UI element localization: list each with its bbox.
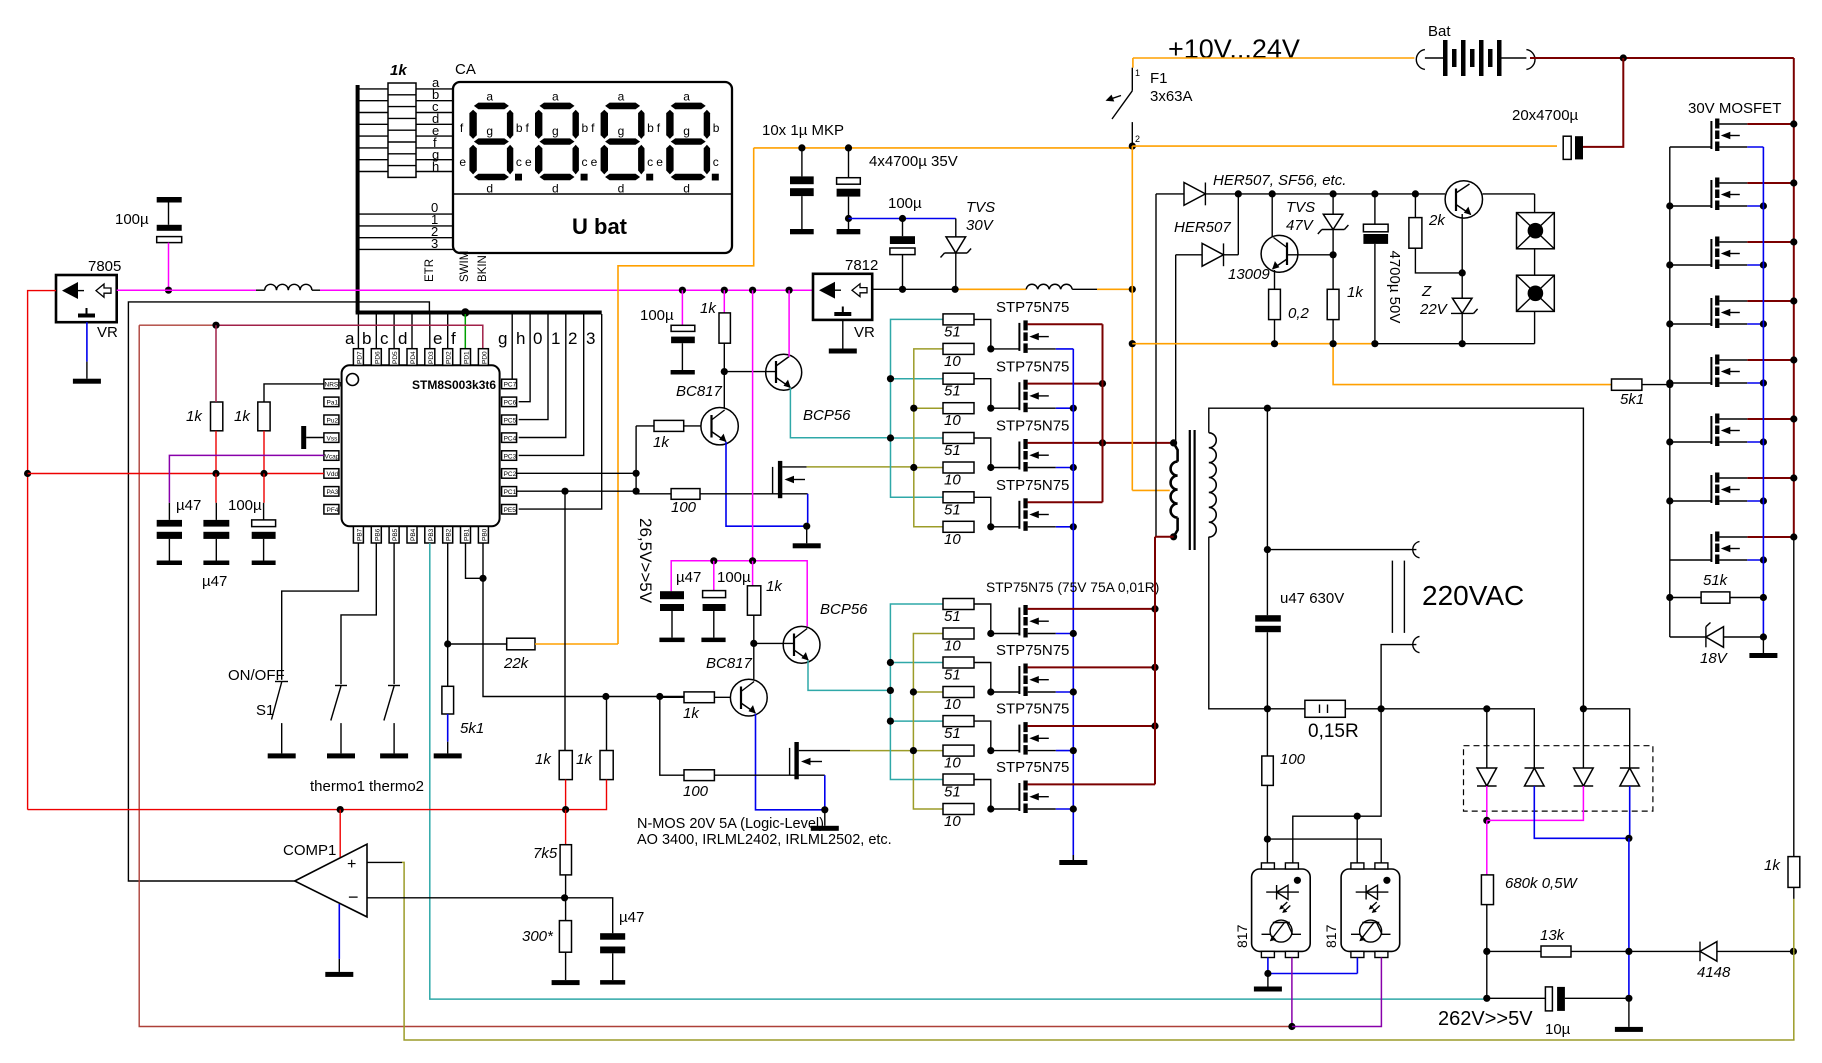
cap C12 20x4700u	[1563, 58, 1623, 159]
node teal L2	[887, 659, 894, 666]
transistor M1 STP75N75	[991, 320, 1056, 353]
wire comp plus input	[367, 861, 402, 863]
svg-text:PD4: PD4	[410, 351, 417, 364]
cap C10 4x4700u 35V	[837, 148, 861, 234]
svg-text:PC4: PC4	[504, 435, 517, 442]
ground S1	[268, 753, 296, 758]
wire comp gnd blue	[338, 904, 340, 959]
node Q8 base zener	[1459, 269, 1466, 276]
wire clamp rail after Q7	[1483, 193, 1535, 195]
svg-text:20x4700µ: 20x4700µ	[1512, 107, 1579, 124]
wire PB6 to thermo1	[341, 543, 376, 684]
wire R6 bottom red	[566, 780, 607, 810]
wire 7812 out rail	[872, 288, 955, 290]
wire 262V node drop	[1486, 951, 1488, 998]
teal branch L2	[890, 662, 943, 664]
node M13 drain	[1790, 356, 1797, 363]
resistor R15 5k1	[1612, 379, 1642, 390]
wire 680k to 13k node	[1486, 905, 1488, 952]
ground 30V bank	[1749, 653, 1777, 658]
node olive L3	[910, 747, 917, 754]
wire Q3 source blue	[807, 494, 809, 526]
svg-text:220VAC: 220VAC	[1422, 580, 1524, 611]
resistor R9 1k upper	[719, 290, 730, 371]
ground lower driver	[811, 826, 839, 831]
wire opto1 emitter blue	[1268, 958, 1358, 974]
svg-text:300*: 300*	[522, 928, 554, 945]
wire source bus gnd stub	[1762, 637, 1764, 653]
wire M9 source blue	[1747, 146, 1763, 148]
wire PB0 down	[483, 543, 606, 697]
transistor M11 30V	[1670, 237, 1748, 270]
cap C2 u47	[157, 503, 182, 565]
node shunt left	[1264, 705, 1271, 712]
wire clamp bottom rail black	[1375, 343, 1535, 345]
svg-text:100µ: 100µ	[640, 307, 674, 324]
cap C15 u47 630V	[1255, 615, 1281, 709]
svg-text:51: 51	[944, 667, 961, 684]
node teal row2	[887, 375, 894, 382]
node lower rail 100u	[710, 557, 717, 564]
svg-text:51: 51	[944, 323, 961, 340]
wire orange 26.5V vertical	[618, 148, 754, 644]
wire M15 source blue	[1747, 500, 1763, 502]
resistor R10 1k base upper	[654, 420, 684, 431]
resistor R18 1k clamp	[1327, 289, 1339, 319]
svg-text:PD5: PD5	[392, 351, 399, 364]
transistor M3 STP75N75	[991, 439, 1056, 472]
svg-text:51: 51	[944, 725, 961, 742]
node M10 drain	[1790, 179, 1797, 186]
wire Q7 emitter	[1274, 270, 1276, 289]
svg-text:STP75N75: STP75N75	[996, 759, 1069, 776]
opto U2 817	[1252, 863, 1311, 958]
transistor M12 30V	[1670, 296, 1748, 329]
node hv sense	[1483, 817, 1490, 824]
wire olive right edge	[1793, 951, 1795, 1040]
teal branch row2	[891, 378, 944, 380]
svg-text:PB7: PB7	[356, 528, 363, 541]
wire Q8 base drop	[1461, 214, 1463, 273]
resistor R12 1k lower	[747, 561, 760, 644]
wire comparator output to bus	[128, 302, 429, 881]
wire bridge in1 corner	[1487, 709, 1535, 768]
node 4700u cap	[845, 144, 852, 151]
wire M5 source blue	[1056, 633, 1074, 635]
digit 2	[525, 90, 589, 196]
wire Q1 collector magenta	[788, 290, 790, 357]
svg-text:Vdd: Vdd	[327, 471, 339, 478]
wire orange top cap rail	[754, 147, 1133, 149]
svg-text:PB0: PB0	[481, 528, 488, 541]
node 10u blue	[1625, 995, 1632, 1002]
diode D6 zener Z 22V	[1451, 273, 1478, 344]
svg-text:PD7: PD7	[356, 351, 363, 364]
resistor R7 7k5	[560, 845, 571, 875]
wire cap C1 to rail	[168, 243, 170, 291]
transistor M13 30V	[1670, 355, 1748, 388]
wire red cap2 stub	[215, 474, 217, 503]
diode D3 HER507	[1156, 183, 1238, 206]
wire gate U3	[974, 438, 991, 468]
node 1k rail	[1330, 340, 1337, 347]
node lower source gnd	[821, 806, 828, 813]
resistor R3 22k	[507, 638, 535, 650]
cap C9 MKP	[790, 148, 814, 234]
node red vdd branch	[24, 470, 31, 477]
svg-text:817: 817	[1234, 924, 1250, 948]
node blue bridge	[1625, 835, 1632, 842]
svg-text:100µ: 100µ	[115, 211, 149, 228]
wire Q2 collector	[723, 372, 725, 408]
resistor R13 1k base lower	[684, 692, 714, 703]
node M2 source	[1070, 405, 1077, 412]
wire M16 source blue	[1747, 559, 1763, 561]
wire gate U4	[974, 497, 991, 527]
node olive row3	[910, 464, 917, 471]
wire 13k row right	[1571, 950, 1700, 952]
svg-text:10: 10	[944, 472, 961, 489]
cap C7 u47 lower	[659, 591, 684, 642]
resistor R21 680k 0,5W	[1481, 875, 1493, 905]
resistor 10 U3	[943, 462, 974, 473]
transistor M5 STP75N75	[991, 605, 1056, 638]
node TVS47 base	[1330, 251, 1337, 258]
wire orange main vertical	[1131, 146, 1133, 490]
node M8 source	[1070, 805, 1077, 812]
svg-text:7805: 7805	[88, 258, 121, 275]
svg-text:h: h	[432, 159, 439, 174]
svg-text:STP75N75: STP75N75	[996, 299, 1069, 316]
diode D4 HER507	[1176, 194, 1239, 266]
node gate U4	[987, 523, 994, 530]
svg-text:STP75N75: STP75N75	[996, 418, 1069, 435]
cap C1 100u top-left	[157, 197, 182, 243]
wire Vcap purple	[169, 455, 324, 502]
svg-text:TVS: TVS	[1286, 199, 1315, 216]
wire R14 right to gate	[714, 774, 824, 776]
transistor Q5 BC817 lower	[730, 679, 767, 716]
svg-text:Bat: Bat	[1428, 23, 1451, 40]
node teal emitter join	[887, 687, 894, 694]
node olive row2	[910, 405, 917, 412]
node olive L2	[910, 688, 917, 695]
node y696 b	[656, 693, 663, 700]
svg-text:51: 51	[944, 608, 961, 625]
transistor Q1 BCP56 upper	[766, 354, 802, 390]
wire M13 source blue	[1747, 382, 1763, 384]
svg-text:1k: 1k	[700, 300, 717, 317]
wire orange transformer tap	[1132, 489, 1170, 491]
wire bridge d1 drop	[1486, 709, 1488, 768]
cap C8 100u lower	[701, 561, 725, 642]
wire M10 source blue	[1747, 205, 1763, 207]
wire Q3 drain olive	[807, 466, 914, 468]
node bridge in1	[1483, 705, 1490, 712]
transistor Q7 13009	[1261, 235, 1298, 272]
wire M1 drain maroon	[1028, 323, 1103, 325]
resistor R17 0,2	[1269, 289, 1281, 319]
MCU left pins	[324, 379, 342, 514]
resistor 10 U1	[943, 343, 974, 354]
svg-text:100: 100	[683, 783, 709, 800]
node opto feed	[1264, 836, 1271, 843]
wire M14 drain maroon	[1747, 418, 1794, 420]
svg-text:13k: 13k	[1540, 927, 1566, 944]
wire red comp drop	[339, 810, 341, 858]
wire base to BCP56	[724, 371, 776, 373]
node teal row3	[887, 434, 894, 441]
node gate U3	[987, 464, 994, 471]
wire opto1 collector purple	[1291, 958, 1293, 1027]
svg-text:1k: 1k	[683, 705, 700, 722]
node M14 gate	[1666, 438, 1673, 445]
wire y696 to lower driver	[606, 696, 684, 698]
opto U3 817	[1341, 863, 1400, 958]
diode D8 bridge	[1525, 768, 1545, 786]
wire PB2 down	[447, 543, 449, 644]
node 0,2 rail	[1271, 340, 1278, 347]
resistor 51 U2	[943, 373, 974, 384]
wire M2 drain maroon	[1028, 383, 1103, 385]
node 22k tap	[444, 640, 451, 647]
teal gate bus upper	[891, 319, 944, 497]
svg-text:51: 51	[944, 784, 961, 801]
svg-text:1k: 1k	[1764, 857, 1781, 874]
wire Q1 emitter teal	[790, 388, 890, 438]
wire PB3 teal long	[430, 543, 1486, 999]
node 4148 right	[1790, 948, 1797, 955]
svg-text:Vss: Vss	[327, 435, 339, 442]
wire PB5 to thermo2	[393, 543, 395, 684]
wire hv mid vertical	[1266, 408, 1268, 615]
wire 13k row left	[1487, 950, 1541, 952]
wire M14 source blue	[1747, 441, 1763, 443]
wire opto2 left drop	[1356, 816, 1358, 863]
wire opto2 collector purple	[1292, 958, 1382, 1027]
svg-text:1k: 1k	[576, 751, 593, 768]
svg-text:µ47: µ47	[619, 909, 644, 926]
wire M4 drain maroon	[1028, 501, 1103, 503]
svg-text:13009: 13009	[1228, 266, 1270, 283]
resistor R8 300*	[559, 921, 571, 953]
teal gate bus lower	[890, 604, 943, 780]
transistor M7 STP75N75	[991, 722, 1056, 755]
node R1 vdd	[212, 470, 219, 477]
transistor M16 30V	[1670, 532, 1748, 565]
node M14 drain	[1790, 415, 1797, 422]
wire gate L1	[974, 604, 991, 634]
node gate U2	[987, 405, 994, 412]
svg-text:ETR: ETR	[424, 259, 436, 282]
svg-text:10: 10	[944, 813, 961, 830]
wire gate L4	[974, 780, 991, 810]
svg-text:CA: CA	[455, 61, 476, 78]
wire clamp top rail	[1238, 193, 1445, 195]
svg-text:thermo1: thermo1	[310, 778, 365, 795]
svg-text:262V>>5V: 262V>>5V	[1438, 1008, 1533, 1030]
svg-text:2k: 2k	[1428, 212, 1446, 229]
ground comp	[325, 972, 353, 977]
teal branch row3	[891, 437, 944, 439]
comparator COMP1	[295, 844, 367, 917]
svg-text:100: 100	[1280, 751, 1306, 768]
wire R11 left	[636, 493, 671, 495]
wire Q6 drain olive	[850, 750, 913, 752]
svg-text:S1: S1	[256, 702, 274, 719]
olive branch row3	[914, 467, 943, 469]
wire opto2 right feed	[1267, 839, 1381, 863]
resistor 51 U4	[943, 492, 974, 503]
svg-text:h: h	[516, 329, 525, 348]
svg-text:1k: 1k	[186, 408, 203, 425]
node M15 gate	[1666, 497, 1673, 504]
svg-text:HER507, SF56, etc.: HER507, SF56, etc.	[1213, 172, 1346, 189]
labels a-f above pins	[345, 329, 456, 348]
cap C11 100u 12V	[890, 219, 915, 290]
wire secondary top	[1209, 408, 1584, 709]
node M7 source	[1070, 747, 1077, 754]
wire orange to 5k1	[1333, 344, 1611, 385]
svg-text:NRST: NRST	[325, 382, 343, 389]
node magenta rail 100u	[679, 287, 686, 294]
svg-text:26,5V>>5V: 26,5V>>5V	[636, 518, 655, 604]
transistor Q8 regulator	[1445, 181, 1482, 218]
wire socket drop	[1534, 194, 1536, 213]
wire R5 bottom red	[565, 780, 567, 810]
node clamp top	[1235, 190, 1242, 197]
svg-text:µ47: µ47	[176, 497, 201, 514]
svg-text:PD6: PD6	[374, 351, 381, 364]
svg-text:10: 10	[944, 696, 961, 713]
wire Q5 emitter blue	[756, 714, 825, 810]
wire socket bottom	[1534, 311, 1536, 343]
wire shunt right to opto row	[1293, 709, 1381, 863]
node gate U1	[987, 345, 994, 352]
svg-text:PB3: PB3	[428, 528, 435, 541]
transistor Q6 N-MOS lower	[790, 742, 850, 779]
node teal L3	[887, 718, 894, 725]
wire R11 right to gate	[700, 493, 808, 495]
digit 1	[459, 90, 523, 196]
transistor M9 30V	[1670, 119, 1748, 152]
resistor 10 L3	[943, 745, 974, 756]
svg-text:VR: VR	[854, 324, 875, 341]
node magenta rail 1k	[721, 287, 728, 294]
labels g,h,0-3	[498, 329, 595, 348]
resistor R5 1k left	[559, 751, 572, 780]
wire opto gnd stub	[1267, 974, 1269, 987]
svg-text:10: 10	[944, 531, 961, 548]
svg-text:STP75N75: STP75N75	[996, 701, 1069, 718]
display DISP1 U bat	[453, 82, 732, 253]
wire M3 source blue	[1056, 467, 1074, 469]
transistor M8 STP75N75	[991, 781, 1056, 814]
wire M10 drain maroon	[1747, 182, 1794, 184]
transistor M6 STP75N75	[991, 664, 1056, 697]
svg-text:c: c	[380, 329, 389, 348]
node opto purple	[1288, 1023, 1295, 1030]
wire gate U2	[974, 379, 991, 409]
node sec top branch	[1264, 405, 1271, 412]
node shunt right	[1378, 705, 1385, 712]
svg-text:18V: 18V	[1700, 650, 1729, 667]
wire magenta 12V rail to 7812	[320, 289, 813, 291]
svg-text:+: +	[347, 856, 356, 873]
node M11 gate	[1666, 261, 1673, 268]
node M3 source	[1070, 464, 1077, 471]
wire R6 top	[606, 697, 608, 751]
svg-text:U bat: U bat	[572, 214, 628, 239]
wire M2 source blue	[1056, 407, 1074, 409]
connector P2 bottom	[1413, 636, 1420, 652]
capacitor Vss plate	[301, 426, 324, 449]
svg-text:PF4: PF4	[327, 507, 339, 514]
svg-text:100µ: 100µ	[888, 195, 922, 212]
svg-text:PC7: PC7	[504, 382, 517, 389]
resistor R20 0,15R shunt	[1267, 700, 1381, 717]
diode D10 bridge	[1620, 768, 1640, 786]
node PC2	[633, 470, 640, 477]
wire gnd stub lower driver	[824, 810, 826, 826]
gate bus 30V	[1669, 147, 1671, 598]
wire M11 source blue	[1747, 264, 1763, 266]
wire 100 to opto1 left	[1266, 785, 1268, 863]
node M5 source	[1070, 630, 1077, 637]
svg-text:10: 10	[944, 412, 961, 429]
svg-text:2: 2	[568, 329, 577, 348]
transistor M4 STP75N75	[991, 498, 1056, 531]
wire brown vertical left	[139, 325, 1292, 1026]
terminal X1	[1517, 213, 1555, 249]
node M12 gate	[1666, 320, 1673, 327]
wire R2 to NRST	[264, 384, 324, 402]
svg-text:PC3: PC3	[504, 453, 517, 460]
svg-text:1: 1	[551, 329, 560, 348]
digit 4	[656, 90, 720, 196]
svg-text:thermo2: thermo2	[369, 778, 424, 795]
node M10 source	[1760, 202, 1767, 209]
node 18V blue	[1760, 633, 1767, 640]
svg-text:SWIM: SWIM	[459, 251, 471, 282]
node magenta bcp	[786, 287, 793, 294]
resistor R6 1k right	[600, 751, 613, 780]
wire x660 drop to 100	[660, 697, 684, 776]
wire M7 source blue	[1056, 750, 1074, 752]
node magenta riser	[749, 287, 756, 294]
svg-text:4x4700µ 35V: 4x4700µ 35V	[869, 153, 958, 170]
wire bridge in2 corner	[1583, 709, 1629, 768]
svg-text:PB5: PB5	[392, 528, 399, 541]
transistor Q2 BC817 upper	[701, 408, 738, 445]
wire M6 drain maroon	[1028, 666, 1155, 668]
resistor R19 2k	[1409, 194, 1462, 273]
node TVS rail	[952, 286, 959, 293]
wire 7805 gnd stub	[86, 362, 88, 379]
node 13k left	[1483, 948, 1490, 955]
svg-text:10: 10	[944, 755, 961, 772]
resistor R23 1k feedback	[1788, 537, 1800, 899]
ground 300	[552, 980, 580, 985]
olive branch L2	[913, 691, 943, 693]
node M9 drain	[1790, 120, 1797, 127]
maroon drain bus upper	[1102, 324, 1104, 502]
wire rail orange mid	[955, 288, 1026, 290]
node M16 drain	[1790, 533, 1797, 540]
wire magenta to 680k	[1486, 820, 1488, 875]
svg-text:STP75N75 (75V 75A 0,01R): STP75N75 (75V 75A 0,01R)	[986, 580, 1159, 595]
svg-text:a: a	[345, 329, 355, 348]
